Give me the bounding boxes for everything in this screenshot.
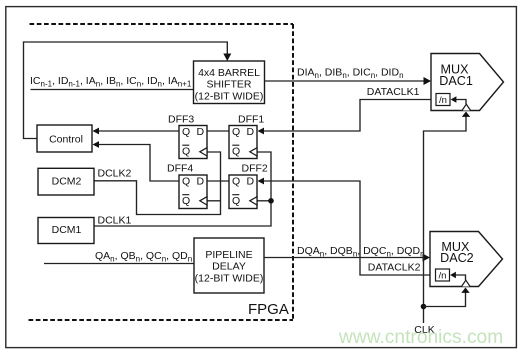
wire: DCLK1 from DCM1 to DFF1/DFF2 clocks <box>94 152 271 226</box>
wire: DFF1 Q to DFF3 D <box>207 130 229 132</box>
pipeline delay block <box>194 238 264 293</box>
wire: pipeline delay output DQ bus to DAC2 <box>264 257 423 259</box>
FPGA boundary (dashed) bottom <box>29 319 294 321</box>
svg-text:DCLK1: DCLK1 <box>98 215 132 227</box>
svg-text:Q: Q <box>232 195 240 207</box>
divider /n 2 <box>436 269 450 281</box>
wire: DFF3 Q to Control <box>99 130 179 132</box>
MUX DAC1 block (pentagon) <box>431 54 504 111</box>
wire: DFF2 clock spur <box>257 200 271 202</box>
wire: CLK tap into divider 2 <box>456 275 466 280</box>
wire: DFF2 Q to DFF4 D <box>207 180 229 182</box>
svg-text:DCM1: DCM1 <box>52 224 82 236</box>
svg-text:DAC1: DAC1 <box>439 74 473 88</box>
DAC1 clock chevron <box>462 104 471 110</box>
svg-text:DCM2: DCM2 <box>52 176 82 188</box>
svg-text:FPGA: FPGA <box>248 301 289 318</box>
svg-text:D: D <box>247 126 255 138</box>
junction dot DFF2 clock <box>268 198 274 204</box>
arrowhead into MUX DAC1 data input <box>424 77 432 85</box>
svg-text:QAn, QBn, QCn, QDn: QAn, QBn, QCn, QDn <box>95 250 192 264</box>
svg-text:DQAn, DQBn, DQCn, DQDn: DQAn, DQBn, DQCn, DQDn <box>297 245 425 259</box>
svg-text:DFF4: DFF4 <box>167 163 193 175</box>
DAC2 clock chevron <box>462 280 471 286</box>
svg-text:Control: Control <box>49 134 83 146</box>
wire: QA input bus to pipeline delay <box>44 263 194 265</box>
arrowhead into MUX DAC2 data input <box>423 254 431 262</box>
svg-text:DFF1: DFF1 <box>238 113 264 125</box>
wire: CLK tap into divider 1 <box>456 100 466 105</box>
arrowhead into divider 1 <box>451 96 457 102</box>
wire: CLK main vertical to DAC1 clock <box>424 116 467 323</box>
arrowhead into DFF2 D input <box>258 178 265 185</box>
barrel shifter block <box>194 61 265 104</box>
svg-text:DELAY: DELAY <box>212 261 246 273</box>
svg-text:Q: Q <box>182 126 190 138</box>
svg-text:D: D <box>197 175 205 187</box>
DFF1 block <box>229 126 257 159</box>
wire: IC input bus to barrel shifter <box>31 89 194 91</box>
svg-text:D: D <box>247 175 255 187</box>
DFF2 block <box>229 175 257 209</box>
wire: DATACLK1 from divider to DFF1 D <box>264 100 436 132</box>
FPGA boundary (dashed) top <box>30 23 294 25</box>
arrowhead up into DAC2 clock chevron <box>461 288 469 293</box>
svg-text:/n: /n <box>439 95 447 106</box>
DCM2 block <box>38 168 94 195</box>
MUX DAC2 block (pentagon) <box>430 232 503 287</box>
wire: CLK branch to DAC2 clock <box>424 292 466 307</box>
svg-text:(12-BIT WIDE): (12-BIT WIDE) <box>195 91 264 103</box>
wire: DFF4 clock spur <box>207 200 221 202</box>
wire: DATACLK2 from divider 2 up to DFF2 D <box>264 181 436 275</box>
svg-text:PIPELINE: PIPELINE <box>205 249 252 261</box>
svg-text:4x4 BARREL: 4x4 BARREL <box>198 67 260 79</box>
wire: DFF4 Q to Control <box>99 145 179 182</box>
arrowhead up into DAC1 clock chevron <box>462 112 470 117</box>
svg-text:Q: Q <box>232 175 240 187</box>
svg-text:DAC2: DAC2 <box>440 251 474 265</box>
svg-text:Q: Q <box>182 175 190 187</box>
wire: Control output to barrel shifter (left loop) <box>24 42 228 139</box>
svg-text:DATACLK1: DATACLK1 <box>367 86 420 98</box>
svg-text:Q: Q <box>182 146 190 158</box>
svg-text:ICn-1, IDn-1, IAn, IBn, ICn, I: ICn-1, IDn-1, IAn, IBn, ICn, IDn, IAn+1 <box>30 75 192 89</box>
DFF3 block <box>179 126 207 159</box>
arrowhead into divider 2 <box>450 272 456 278</box>
arrowhead into Control (from DFF4) <box>93 141 100 148</box>
DFF4 block <box>179 175 207 209</box>
svg-text:DFF3: DFF3 <box>168 113 194 125</box>
svg-text:DIAn, DIBn, DICn, DIDn: DIAn, DIBn, DICn, DIDn <box>297 67 404 81</box>
svg-text:Q: Q <box>232 146 240 158</box>
svg-text:/n: /n <box>439 271 447 282</box>
junction dot CLK branch <box>421 304 427 310</box>
wire: barrel shifter output DIA bus to DAC1 <box>265 80 425 82</box>
svg-text:Q: Q <box>232 126 240 138</box>
DCM1 block <box>38 218 94 244</box>
svg-text:www.cntronics.com: www.cntronics.com <box>338 327 503 348</box>
svg-text:DCLK2: DCLK2 <box>98 168 132 180</box>
svg-text:D: D <box>197 126 205 138</box>
svg-text:(12-BIT WIDE): (12-BIT WIDE) <box>195 273 264 285</box>
svg-text:SHIFTER: SHIFTER <box>207 79 252 91</box>
svg-text:DFF2: DFF2 <box>242 163 268 175</box>
wire: DCLK2 from DCM2 to DFF3/DFF4 clocks <box>94 152 221 215</box>
FPGA boundary (dashed) right <box>292 24 294 320</box>
divider /n 1 <box>436 94 450 106</box>
arrowhead into barrel shifter top <box>223 54 231 62</box>
arrowhead into Control (from DFF3) <box>93 128 100 135</box>
arrowhead into DFF1 D input <box>258 128 265 135</box>
svg-text:DATACLK2: DATACLK2 <box>368 261 421 273</box>
svg-text:Q: Q <box>182 195 190 207</box>
Control block <box>37 125 92 152</box>
